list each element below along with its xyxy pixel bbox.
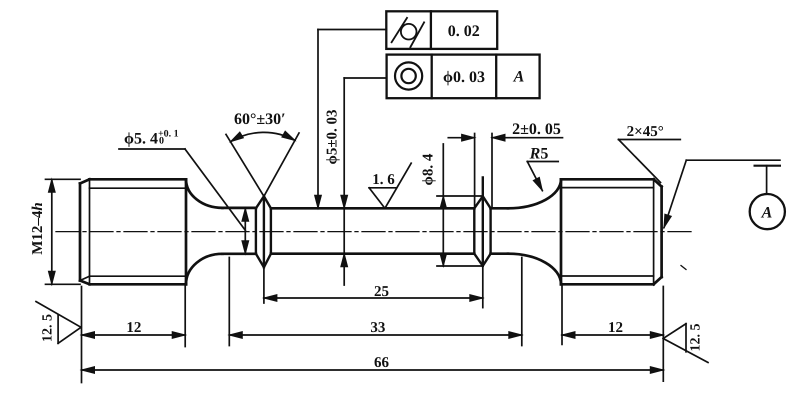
dimension M12-4h extension lines [46,179,81,284]
dimension 25 line [264,297,483,299]
dimension 2+-0.05 line [448,137,562,139]
svg-text:ϕ8. 4: ϕ8. 4 [421,153,437,185]
roughness 1.6 symbol [369,163,411,208]
svg-text:2±0. 05: 2±0. 05 [512,121,561,138]
dimension 12 right line [562,334,663,336]
roughness 12.5 left symbol [36,302,81,344]
dimension 33 line [229,334,522,336]
svg-text:R5: R5 [529,146,549,163]
speck artifact [681,266,686,270]
svg-text:ϕ0. 03: ϕ0. 03 [443,69,485,86]
svg-text:1. 6: 1. 6 [372,172,395,188]
svg-text:12: 12 [126,320,141,336]
angle 60deg arc [231,132,295,141]
dimension 12 left extension lines [82,284,186,382]
left fillet bottom [186,254,223,284]
svg-text:12. 5: 12. 5 [689,324,704,352]
label phi5.4 leader [119,149,245,230]
right head thread lines [561,179,654,284]
left head thread lines [80,179,186,284]
svg-text:A: A [761,205,773,222]
leader from cylindricity frame [318,30,386,209]
feature control frame concentricity [387,55,540,99]
feature control frame cylindricity [386,11,497,49]
dimension 12 left line [82,334,186,336]
dimension phi5.4 line [244,208,246,253]
leader from concentricity frame / phi5 dimension [344,78,386,285]
specimen outline left head [80,179,186,284]
dimension phi8.4 line [442,144,444,266]
cylindricity symbol [401,24,417,40]
dimension phi8.4 extension lines [437,196,483,266]
svg-text:33: 33 [370,320,385,336]
gauge section middle [271,208,474,253]
svg-text:12: 12 [608,320,623,336]
centerline [56,231,692,233]
dimension 33 extension lines [229,258,522,346]
specimen outline right head [561,179,662,284]
svg-text:0. 02: 0. 02 [448,23,480,40]
left fillet top [186,179,223,208]
roughness 12.5 right symbol [663,324,708,363]
svg-text:25: 25 [374,284,389,300]
gauge section right [491,208,508,253]
svg-text:12. 5: 12. 5 [41,314,56,342]
datum A bar [755,165,780,167]
svg-text:A: A [513,69,525,86]
svg-text:60°±30′: 60°±30′ [234,111,286,128]
label 2x45 leader [619,140,681,183]
gauge section left [223,208,256,254]
concentricity symbol [395,62,422,89]
angle 60deg lines [226,133,299,196]
dimension 12 right extension lines [562,284,663,381]
right fillet bottom [508,254,561,285]
dimension 66 line [82,369,664,371]
dimension 25 extension lines [264,266,483,308]
svg-text:ϕ5±0. 03: ϕ5±0. 03 [325,109,341,164]
dimension M12-4h line [51,179,53,284]
datum A circle [750,194,785,229]
label R5 leader [527,162,558,191]
right cone feature [474,178,490,266]
svg-text:M12–4h: M12–4h [30,202,46,255]
svg-text:66: 66 [374,355,390,371]
svg-text:2×45°: 2×45° [627,124,664,140]
dimension 2+-0.05 extension lines [475,134,492,208]
right fillet top [508,179,561,208]
left cone feature [256,196,271,267]
datum A leader [664,160,780,227]
datum A circle stem [766,166,768,194]
